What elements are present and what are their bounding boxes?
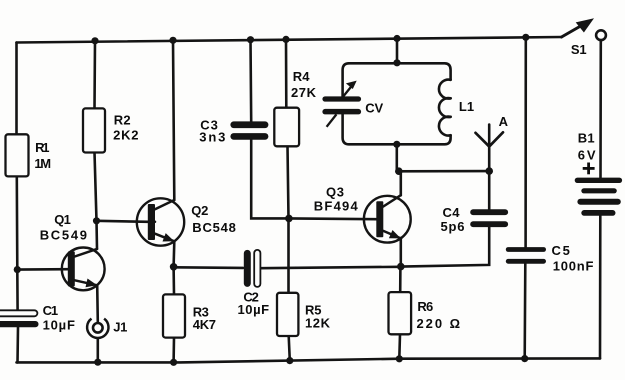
svg-text:4K7: 4K7: [193, 317, 216, 332]
svg-text:C4: C4: [443, 205, 461, 220]
svg-text:L1: L1: [459, 99, 474, 114]
svg-text:3n3: 3n3: [199, 130, 225, 145]
svg-text:R4: R4: [293, 69, 310, 84]
svg-text:5p6: 5p6: [441, 219, 465, 234]
svg-text:J1: J1: [113, 319, 127, 334]
svg-text:R6: R6: [417, 299, 433, 314]
svg-text:10µF: 10µF: [238, 302, 270, 317]
svg-text:Q1: Q1: [54, 212, 71, 227]
svg-text:C5: C5: [552, 243, 570, 258]
svg-text:Q2: Q2: [191, 203, 208, 218]
svg-text:A: A: [499, 114, 509, 129]
svg-text:BC549: BC549: [40, 228, 87, 243]
svg-text:12K: 12K: [305, 316, 331, 331]
svg-text:6V: 6V: [578, 147, 596, 162]
svg-text:27K: 27K: [291, 85, 317, 100]
svg-text:B1: B1: [578, 131, 595, 146]
svg-text:220 Ω: 220 Ω: [417, 316, 461, 331]
svg-text:C1: C1: [43, 303, 59, 318]
svg-text:1M: 1M: [34, 156, 51, 171]
svg-text:Q3: Q3: [326, 185, 344, 200]
svg-text:10µF: 10µF: [43, 317, 75, 332]
svg-text:BF494: BF494: [314, 198, 359, 213]
svg-text:CV: CV: [365, 100, 383, 115]
svg-text:R2: R2: [114, 112, 131, 127]
svg-text:2K2: 2K2: [113, 128, 138, 143]
svg-text:BC548: BC548: [192, 220, 236, 235]
svg-text:R1: R1: [35, 140, 49, 155]
svg-text:S1: S1: [571, 42, 587, 57]
svg-text:100nF: 100nF: [553, 259, 594, 274]
